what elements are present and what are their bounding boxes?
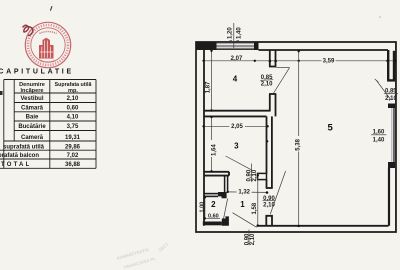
- door D4 room2 leaf: [224, 199, 228, 220]
- svg-text:2,07: 2,07: [231, 56, 243, 62]
- svg-text:0,60: 0,60: [67, 106, 79, 112]
- jamb wall left of room3 door: [225, 176, 228, 193]
- inner top wall line: [259, 49, 389, 51]
- room3 bottom wall flange: [258, 173, 267, 179]
- svg-text:36,88: 36,88: [65, 162, 81, 168]
- svg-text:suprafată utilă: suprafată utilă: [3, 144, 45, 150]
- inner left wall line: [203, 50, 205, 226]
- svg-text:2,10: 2,10: [261, 82, 273, 88]
- svg-text:1,40: 1,40: [373, 137, 385, 143]
- svg-text:Vestibul: Vestibul: [20, 96, 43, 102]
- cut text mark at left edge: [0, 91, 3, 95]
- svg-text:încăpere: încăpere: [19, 88, 43, 94]
- door D1 room4->room5 header + leaf: [276, 67, 289, 69]
- window end block: [254, 42, 259, 50]
- svg-text:29,86: 29,86: [65, 144, 81, 150]
- dim 1.00 room2: [204, 197, 206, 219]
- dim 5.38 vertical: [298, 51, 300, 227]
- svg-text:1,58: 1,58: [252, 202, 258, 214]
- svg-text:1,40: 1,40: [237, 27, 243, 39]
- svg-text:2,10: 2,10: [263, 203, 275, 209]
- door D3 room3 leaf: [226, 156, 252, 170]
- room2 bottom wall solid: [203, 222, 222, 226]
- svg-text:suprafată balcon: suprafată balcon: [0, 153, 39, 159]
- svg-text:2: 2: [211, 200, 216, 209]
- wall stub below door D1: [269, 94, 276, 116]
- svg-text:7,02: 7,02: [67, 153, 79, 159]
- dim line top horizontal: [203, 60, 395, 62]
- svg-text:1,87: 1,87: [206, 81, 212, 93]
- table grid: [0, 80, 96, 169]
- table header text: [0, 82, 91, 168]
- dim 1.64 vertical: [211, 116, 213, 171]
- svg-text:ECAPITULATIE: ECAPITULATIE: [0, 69, 74, 76]
- emblem center: [39, 38, 54, 59]
- window W2 right (1.60/1.40): [388, 104, 395, 109]
- bottom wall inner line right of entry door: [257, 225, 389, 227]
- right wall outer line: [395, 42, 397, 232]
- svg-text:5: 5: [328, 123, 334, 134]
- svg-text:1,32: 1,32: [238, 189, 250, 195]
- door D2 hall->room5 leaf: [270, 171, 285, 214]
- svg-text:19,31: 19,31: [65, 135, 81, 141]
- svg-text:1: 1: [240, 200, 245, 209]
- wall notch bottom (hall/room5): [266, 216, 272, 226]
- svg-text:Baie: Baie: [26, 114, 39, 120]
- dim 2.05: [203, 125, 267, 127]
- dim 1.32: [228, 191, 269, 194]
- top wall solid block left (corner to window): [196, 42, 217, 50]
- door D5 entry leaf: [233, 213, 257, 228]
- svg-text:2,10: 2,10: [385, 96, 397, 102]
- faint bottom-left stamp: [116, 241, 170, 270]
- svg-text:Bucătărie: Bucătărie: [18, 124, 46, 130]
- red signature squiggle: [23, 25, 33, 35]
- entry door frame block: [222, 216, 229, 225]
- exterior outer boundary: [196, 42, 396, 232]
- wall between room4 and room5 upper stub: [269, 50, 276, 67]
- right wall lower inner segment: [388, 168, 390, 226]
- right wall upper segment (U shape): [387, 50, 395, 80]
- dim 3.59: [322, 58, 336, 64]
- balcony door header/diagonal (0.85/2.10): [377, 81, 392, 101]
- svg-text:4: 4: [233, 75, 238, 84]
- svg-text:2,10: 2,10: [250, 233, 256, 245]
- svg-text:1,00: 1,00: [200, 202, 206, 213]
- svg-text:3: 3: [234, 142, 239, 151]
- svg-text:2,05: 2,05: [231, 124, 243, 130]
- small pen tick top: [50, 6, 52, 11]
- dim 1.58 vertical: [257, 175, 259, 226]
- svg-text:4,10: 4,10: [67, 114, 79, 120]
- window W1 top (1.20/1.40): [217, 43, 255, 49]
- faint dot right: [379, 16, 381, 18]
- wall between room4 and room3 (horizontal): [204, 111, 271, 117]
- svg-text:2,10: 2,10: [67, 96, 79, 102]
- room3 bottom wall: [204, 172, 229, 176]
- svg-text:Cămară: Cămară: [21, 106, 44, 112]
- svg-text:Cameră: Cameră: [21, 135, 44, 141]
- svg-text:1,20: 1,20: [228, 27, 234, 39]
- wall hall/room5 (vertical): [266, 116, 273, 188]
- svg-text:mp.: mp.: [68, 88, 78, 94]
- svg-text:TOTAL: TOTAL: [1, 162, 31, 168]
- svg-text:5,38: 5,38: [296, 138, 302, 150]
- svg-text:3,59: 3,59: [323, 58, 335, 64]
- dim 1.20/1.40 window top: [228, 23, 243, 48]
- dim 1.87 vertical: [211, 51, 213, 111]
- red stamp: [25, 22, 70, 67]
- svg-text:1,64: 1,64: [211, 144, 217, 156]
- svg-text:3,75: 3,75: [67, 124, 79, 130]
- room2 top wall: [204, 194, 218, 197]
- room2 top-right block: [218, 192, 227, 198]
